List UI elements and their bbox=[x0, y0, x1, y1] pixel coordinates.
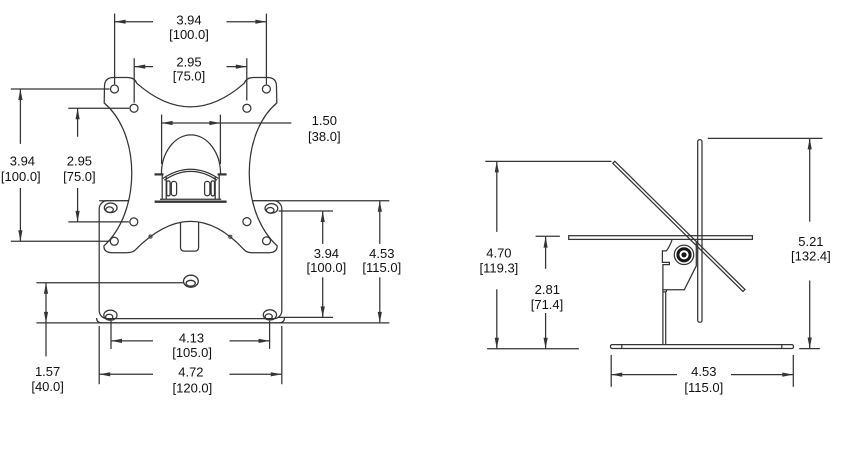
svg-text:[71.4]: [71.4] bbox=[531, 297, 564, 312]
svg-text:[38.0]: [38.0] bbox=[308, 129, 341, 144]
svg-text:4.53: 4.53 bbox=[691, 364, 716, 379]
svg-text:4.70: 4.70 bbox=[486, 245, 511, 260]
svg-text:4.72: 4.72 bbox=[178, 364, 203, 379]
svg-text:[100.0]: [100.0] bbox=[1, 169, 41, 184]
svg-text:4.13: 4.13 bbox=[179, 331, 204, 346]
svg-text:5.21: 5.21 bbox=[798, 234, 823, 249]
svg-text:[105.0]: [105.0] bbox=[172, 345, 212, 360]
svg-text:3.94: 3.94 bbox=[10, 154, 35, 169]
svg-text:4.53: 4.53 bbox=[369, 246, 394, 261]
svg-text:[40.0]: [40.0] bbox=[31, 379, 64, 394]
svg-text:[100.0]: [100.0] bbox=[307, 260, 347, 275]
svg-text:[100.0]: [100.0] bbox=[169, 27, 209, 42]
svg-text:1.57: 1.57 bbox=[35, 364, 60, 379]
svg-text:[75.0]: [75.0] bbox=[173, 69, 206, 84]
svg-text:1.50: 1.50 bbox=[312, 113, 337, 128]
svg-text:2.81: 2.81 bbox=[535, 282, 560, 297]
svg-text:[132.4]: [132.4] bbox=[791, 249, 831, 264]
svg-text:[75.0]: [75.0] bbox=[63, 169, 96, 184]
svg-text:3.94: 3.94 bbox=[314, 246, 339, 261]
svg-text:[120.0]: [120.0] bbox=[173, 381, 213, 396]
svg-text:2.95: 2.95 bbox=[176, 54, 201, 69]
svg-text:2.95: 2.95 bbox=[67, 154, 92, 169]
svg-text:[115.0]: [115.0] bbox=[684, 380, 723, 395]
svg-text:[115.0]: [115.0] bbox=[362, 260, 401, 275]
svg-text:3.94: 3.94 bbox=[176, 13, 201, 28]
svg-text:[119.3]: [119.3] bbox=[480, 261, 519, 276]
